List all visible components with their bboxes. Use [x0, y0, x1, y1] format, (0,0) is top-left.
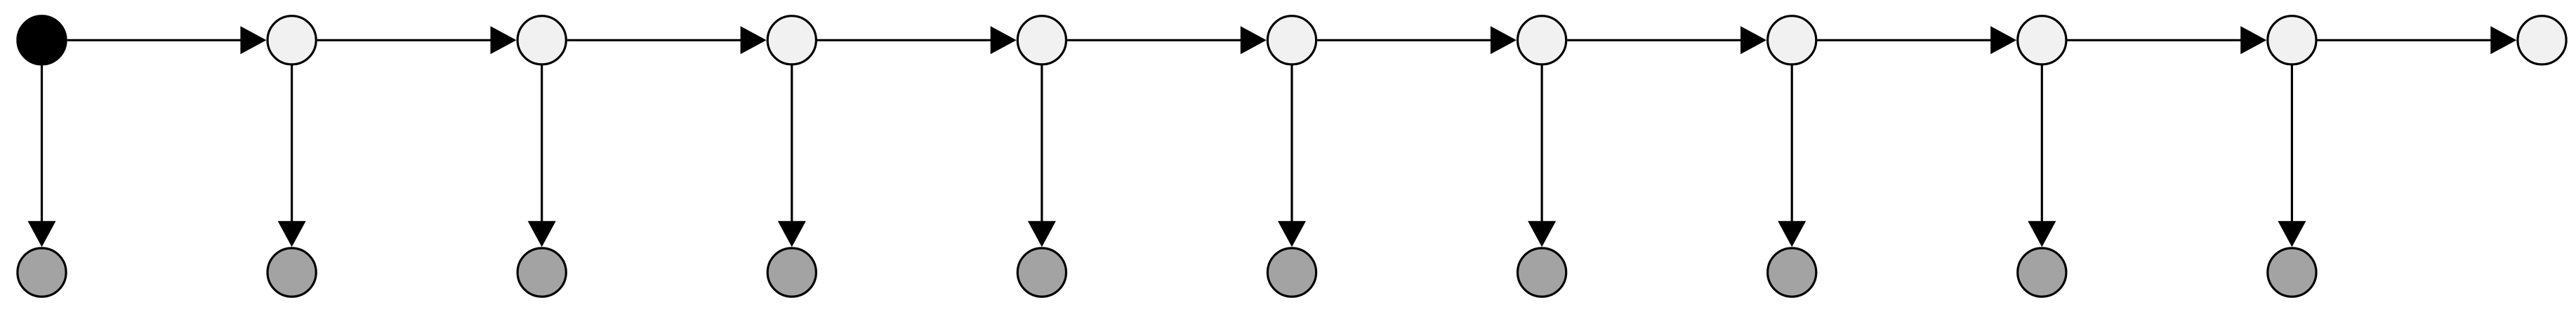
wire: emission arrow s1 to o1	[291, 66, 293, 223]
wire: emission arrow s0 to o0	[41, 66, 43, 223]
wire: emission arrow s6 to o6	[1541, 66, 1543, 223]
node state node s0 (black, filled)	[18, 16, 66, 65]
wire: transition arrow s2 to s3	[567, 39, 742, 41]
wire: transition arrow s9 to s10	[2318, 39, 2492, 41]
node observation node o1 (gray)	[267, 248, 316, 297]
node state node s1	[267, 16, 316, 65]
wire: emission arrow s3 to o3	[791, 66, 793, 223]
wire: emission arrow s9 to o9	[2291, 66, 2293, 223]
node observation node o9 (gray)	[2268, 248, 2316, 297]
wire: transition arrow s0 to s1	[67, 39, 242, 41]
wire: emission arrow s7 to o7	[1791, 66, 1793, 223]
node observation node o3 (gray)	[767, 248, 816, 297]
wire: transition arrow s8 to s9	[2068, 39, 2243, 41]
wire: transition arrow s4 to s5	[1067, 39, 1242, 41]
wire: transition arrow s3 to s4	[817, 39, 992, 41]
wire: emission arrow s2 to o2	[541, 66, 543, 223]
node state node s10	[2518, 16, 2566, 65]
wire: transition arrow s1 to s2	[317, 39, 492, 41]
node observation node o8 (gray)	[2018, 248, 2066, 297]
node state node s8	[2018, 16, 2066, 65]
node observation node o0 (gray)	[18, 248, 66, 297]
node observation node o4 (gray)	[1017, 248, 1066, 297]
wire: emission arrow s4 to o4	[1041, 66, 1043, 223]
node observation node o7 (gray)	[1768, 248, 1816, 297]
node state node s6	[1518, 16, 1566, 65]
node state node s3	[767, 16, 816, 65]
node state node s9	[2268, 16, 2316, 65]
wire: transition arrow s6 to s7	[1567, 39, 1742, 41]
node observation node o5 (gray)	[1267, 248, 1316, 297]
wire: emission arrow s5 to o5	[1290, 66, 1293, 223]
node state node s2	[517, 16, 566, 65]
node state node s7	[1768, 16, 1816, 65]
node state node s5	[1267, 16, 1316, 65]
node observation node o2 (gray)	[517, 248, 566, 297]
node observation node o6 (gray)	[1518, 248, 1566, 297]
node state node s4	[1017, 16, 1066, 65]
wire: transition arrow s7 to s8	[1817, 39, 1992, 41]
wire: transition arrow s5 to s6	[1317, 39, 1492, 41]
wire: emission arrow s8 to o8	[2041, 66, 2043, 223]
